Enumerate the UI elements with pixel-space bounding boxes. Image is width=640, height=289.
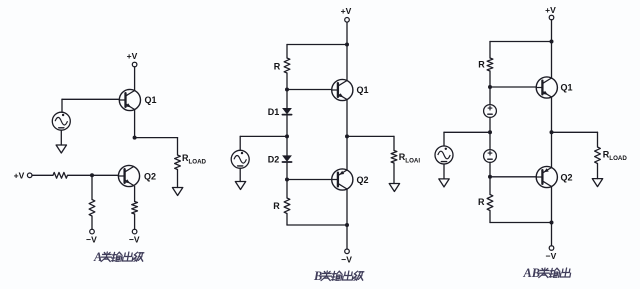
caption B-class output stage	[313, 269, 364, 283]
svg-text:Q2: Q2	[356, 175, 368, 185]
resistor R lower circuit3	[487, 177, 493, 223]
label +V supply circuit1	[127, 51, 138, 61]
label RLOAD circuit3	[603, 150, 628, 163]
wire Q2 top lead circuit3	[551, 132, 553, 167]
svg-text:R: R	[478, 59, 485, 69]
ground below source1	[56, 145, 66, 153]
node Q1 base circuit3	[488, 85, 492, 89]
transistor Q1 circuit2	[332, 79, 353, 100]
svg-text:R: R	[273, 201, 280, 211]
wire top rail circuit3	[490, 41, 552, 43]
source V3 sine circuit3	[435, 146, 453, 164]
svg-text:+V: +V	[14, 170, 25, 180]
source VBE2 battery	[484, 150, 497, 163]
label Q2 circuit1	[144, 171, 156, 181]
wire Q1 collector circuit2	[346, 45, 348, 81]
ground below RLOAD circuit1	[172, 188, 182, 196]
wire output to RLOAD circuit2	[347, 135, 394, 137]
svg-text:+V: +V	[127, 51, 138, 61]
resistor RLOAD circuit1	[175, 138, 181, 188]
svg-text:+V: +V	[341, 6, 352, 16]
wire source3 up	[443, 132, 445, 146]
svg-text:Q1: Q1	[356, 85, 368, 95]
junction bottom rail circuit2	[345, 223, 349, 227]
resistor emitter Q2	[132, 186, 138, 229]
wire Q2 top lead circuit2	[346, 136, 348, 170]
source VBE1 battery	[484, 105, 497, 118]
wire bottom rail circuit2	[287, 224, 347, 226]
resistor R upper circuit2	[284, 45, 290, 90]
label R lower circuit2	[273, 201, 280, 211]
wire top rail circuit2	[287, 44, 347, 46]
node output circuit1	[133, 136, 137, 140]
node base Q2	[90, 173, 94, 177]
label D1	[268, 107, 280, 117]
diode D2	[282, 156, 291, 162]
wire Q2 bottom lead circuit3	[551, 187, 553, 223]
node Q1 base circuit2	[285, 88, 289, 92]
wire output to RLOAD circuit3	[552, 131, 598, 133]
node Q2 base circuit2	[285, 178, 289, 182]
node output circuit3	[550, 130, 554, 134]
terminal -V circuit2	[345, 249, 350, 254]
wire +V to Q1 collector	[134, 67, 136, 91]
svg-text:Q1: Q1	[560, 82, 572, 92]
svg-text:−V: −V	[129, 234, 140, 244]
terminal +V circuit2	[345, 18, 350, 23]
label Q1 circuit1	[144, 95, 156, 105]
source V1 sine circuit1	[52, 112, 70, 130]
node output circuit2	[345, 134, 349, 138]
wire +V down circuit3	[551, 20, 553, 42]
svg-text:D1: D1	[268, 107, 280, 117]
terminal -V emitter circuit1	[132, 229, 137, 234]
svg-text:Q2: Q2	[144, 171, 156, 181]
svg-text:D2: D2	[268, 154, 280, 164]
label R upper circuit3	[478, 59, 485, 69]
svg-text:AB: AB	[523, 266, 541, 280]
transistor Q2 circuit3 pnp	[536, 166, 557, 187]
wire input to resistor	[32, 174, 53, 176]
wire to Q2 base circuit2	[287, 179, 332, 181]
label -V emitter circuit1	[129, 234, 140, 244]
wire Q1 emitter to node	[134, 110, 136, 138]
label -V bias circuit1	[86, 234, 97, 244]
transistor Q2 circuit2 pnp	[332, 169, 353, 190]
svg-text:R: R	[274, 61, 281, 71]
wire source2 up	[239, 136, 241, 150]
terminal +V circuit1	[132, 62, 137, 67]
wire to -V circuit2	[346, 225, 348, 249]
terminal -V bias circuit1	[90, 229, 95, 234]
wire to Q1 base circuit2	[287, 89, 332, 91]
wire D1 to node	[286, 90, 288, 109]
resistor R upper circuit3	[487, 42, 493, 88]
junction top rail circuit3	[550, 40, 554, 44]
resistor RLOAD circuit3	[595, 132, 601, 178]
wire to Q2 base circuit3	[490, 176, 536, 178]
resistor RLOAD circuit2	[391, 136, 397, 183]
wire D2 cathode to node	[286, 162, 288, 179]
diode D1	[282, 108, 291, 114]
label +V circuit2	[341, 6, 352, 16]
svg-text:−V: −V	[86, 234, 97, 244]
wire bat2 bottom	[489, 162, 491, 176]
node input circuit2	[285, 134, 289, 138]
wire source2 horizontal	[240, 135, 287, 137]
wire +V down circuit2	[346, 22, 348, 44]
wire bottom rail circuit3	[490, 222, 552, 224]
wire Q1 emitter circuit2	[346, 100, 348, 137]
svg-text:Q2: Q2	[560, 172, 572, 182]
wire source2 to ground	[239, 168, 241, 181]
label -V circuit2	[341, 254, 352, 264]
svg-text:−V: −V	[341, 254, 352, 264]
svg-text:Q1: Q1	[144, 95, 156, 105]
transistor Q1 circuit1	[119, 89, 140, 110]
label +V input circuit1	[14, 170, 25, 180]
source V2 sine circuit2	[231, 150, 249, 168]
label R lower circuit3	[478, 197, 485, 207]
wire Q1 emitter circuit3	[551, 97, 553, 132]
wire source3 horizontal	[444, 131, 490, 133]
transistor Q1 circuit3	[536, 77, 557, 98]
wire D2 to node	[286, 136, 288, 155]
wire source1 up	[61, 99, 63, 112]
svg-text:R: R	[478, 197, 485, 207]
wire to -V circuit3	[551, 223, 553, 246]
ground below source3	[439, 179, 449, 187]
label Q2 circuit2	[356, 175, 368, 185]
wire bat1 top	[489, 87, 491, 105]
wire bat1 bottom	[489, 117, 491, 132]
ground below RLOAD circuit2	[389, 184, 399, 192]
caption A-class output stage	[93, 250, 144, 264]
wire source3 to ground	[443, 164, 445, 179]
label Q2 circuit3	[560, 172, 572, 182]
wire D1 cathode to node	[286, 115, 288, 136]
wire source1 to ground	[60, 130, 62, 145]
transistor Q2 circuit1	[118, 165, 139, 186]
wire Q1 base horizontal	[62, 98, 119, 100]
node Q2 base circuit3	[488, 175, 492, 179]
wire to Q1 base circuit3	[490, 86, 536, 88]
wire Q2 bottom lead circuit2	[346, 189, 348, 225]
resistor base circuit1	[53, 172, 68, 178]
node input circuit3	[488, 130, 492, 134]
resistor R lower circuit2	[284, 180, 290, 226]
label -V circuit3	[546, 251, 557, 261]
terminal +V circuit3	[549, 15, 554, 20]
wire node to RLOAD	[135, 137, 178, 139]
terminal +V input circuit1	[27, 173, 32, 178]
caption AB-class output stage	[523, 266, 572, 280]
wire Q1 collector circuit3	[551, 42, 553, 79]
ground below RLOAD circuit3	[592, 179, 602, 187]
svg-text:−V: −V	[546, 251, 557, 261]
wire bat2 top	[489, 132, 491, 149]
ground below source2	[235, 182, 245, 190]
resistor bias circuit1	[89, 175, 95, 229]
label RLOAD circuit1	[182, 153, 207, 166]
label D2	[268, 154, 280, 164]
junction bottom rail circuit3	[550, 221, 554, 225]
junction top rail circuit2	[345, 43, 349, 47]
svg-text:+V: +V	[545, 5, 556, 15]
terminal -V circuit3	[549, 246, 554, 251]
wire node to Q2 base	[92, 174, 118, 176]
label Q1 circuit3	[560, 82, 572, 92]
label +V circuit3	[545, 5, 556, 15]
wire resistor to base node	[68, 174, 93, 176]
label RLOAD circuit2	[399, 152, 421, 165]
label R upper circuit2	[274, 61, 281, 71]
label Q1 circuit2	[356, 85, 368, 95]
